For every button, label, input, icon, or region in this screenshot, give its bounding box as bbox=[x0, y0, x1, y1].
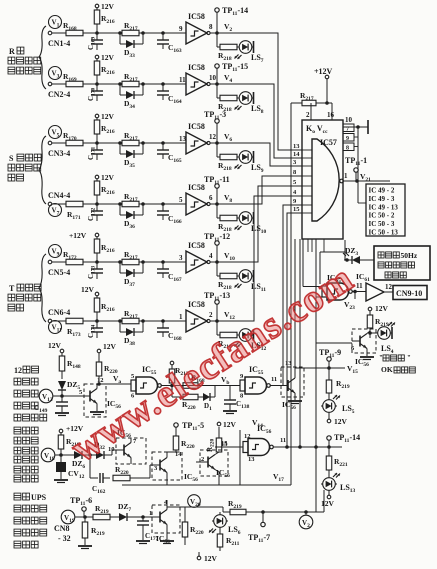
box: inverter 50Hz reference sine generator bbox=[374, 246, 430, 280]
transistor IC56 (inhibit) bbox=[149, 499, 180, 545]
svg-text:3: 3 bbox=[179, 254, 183, 262]
channel row 4: input V7 / CN4-4 bbox=[48, 191, 70, 217]
svg-text:12V: 12V bbox=[101, 112, 115, 121]
wire bbox=[83, 261, 122, 263]
long bottom wire bbox=[122, 484, 291, 486]
wire to output node bbox=[210, 142, 217, 144]
bus wire row5 to IC57 pin5 bbox=[217, 186, 302, 262]
svg-text:CN5-4: CN5-4 bbox=[48, 268, 70, 277]
resistor R212 bbox=[169, 361, 189, 383]
LED LS12 bbox=[235, 329, 267, 352]
diode D36 bbox=[120, 204, 143, 230]
svg-text:IC 50 - 2: IC 50 - 2 bbox=[369, 212, 395, 220]
resistor R171 bbox=[66, 201, 83, 221]
capacitor C167 bbox=[157, 262, 182, 283]
label: R-phase transistor base drive board bbox=[8, 47, 41, 74]
resistor R216 bbox=[94, 239, 115, 262]
12V supply rail bbox=[95, 173, 114, 182]
wire bbox=[83, 142, 122, 144]
capacitor C138 bbox=[223, 386, 250, 414]
svg-text:T: T bbox=[9, 284, 15, 293]
test point TP11-3 bbox=[204, 110, 226, 143]
label: S-phase transistor base drive board bbox=[8, 154, 41, 181]
IC57 pin2 and pin16 stubs bbox=[306, 103, 335, 120]
resistor R218 bbox=[217, 262, 237, 291]
svg-text:IC58: IC58 bbox=[188, 63, 205, 72]
bus wire to IC57 pin9 bbox=[283, 205, 302, 385]
test point TP11-5 and resistor R220 pullup bbox=[173, 421, 204, 450]
buffer amplifier IC61 triangle bbox=[366, 283, 393, 301]
svg-text:15: 15 bbox=[293, 206, 300, 213]
svg-text:13: 13 bbox=[285, 360, 292, 367]
svg-text:2: 2 bbox=[209, 311, 213, 319]
wire to IC49 list box bbox=[358, 202, 366, 204]
LED LS5 bbox=[321, 395, 355, 419]
label: inverter inhibit control signal from UPS logic board bbox=[14, 493, 47, 548]
svg-text:+12V: +12V bbox=[69, 231, 87, 240]
12V supply (LS4) bbox=[368, 304, 388, 315]
resistor R216 bbox=[94, 298, 115, 321]
svg-text:7: 7 bbox=[346, 127, 349, 133]
svg-text:12V: 12V bbox=[48, 341, 62, 350]
channel row 2: input V3 / CN2-4 bbox=[48, 67, 70, 100]
resistor R219 (to V2) bbox=[223, 499, 324, 515]
op-amp IC58 row 1 bbox=[179, 12, 213, 44]
gate IC56 (output) bbox=[215, 424, 286, 463]
bus wire row6 to IC57 pin4 bbox=[217, 196, 302, 321]
svg-text:IC 49 - 3: IC 49 - 3 bbox=[369, 195, 395, 203]
svg-text:15: 15 bbox=[221, 441, 228, 448]
resistor R216 bbox=[94, 181, 115, 204]
LED LS7 bbox=[235, 41, 264, 64]
node Vb wire bbox=[215, 375, 240, 386]
test point TP11-15 bbox=[215, 62, 248, 84]
svg-text:8: 8 bbox=[209, 23, 213, 31]
zener DZ3 bbox=[343, 246, 374, 264]
channel row 1: input V1 / CN1-4 bbox=[48, 16, 70, 49]
diode D34 bbox=[120, 84, 143, 110]
svg-text:IC 50 - 3: IC 50 - 3 bbox=[369, 220, 395, 228]
wire to output node bbox=[210, 203, 217, 205]
svg-text:IC58: IC58 bbox=[188, 183, 205, 192]
resistor R220 (bootstrap supply) bbox=[96, 342, 118, 384]
12V supply rail bbox=[95, 53, 114, 62]
svg-text:12V: 12V bbox=[101, 53, 115, 62]
svg-text:12V: 12V bbox=[223, 420, 237, 429]
test point TP11-13 bbox=[204, 291, 230, 321]
transistor IC56 (LS4 driver) bbox=[352, 329, 376, 368]
svg-text:OK: OK bbox=[381, 365, 393, 374]
svg-text:11: 11 bbox=[280, 437, 286, 444]
svg-text:2: 2 bbox=[306, 111, 310, 119]
resistor R217 (IC57 supply) bbox=[291, 91, 332, 106]
capacitor C163 bbox=[157, 33, 182, 54]
transistor IC56 (test stage 2) bbox=[152, 450, 198, 485]
diode D38 bbox=[120, 321, 143, 347]
resistor R220 (pullup to 12V) bbox=[206, 427, 228, 452]
bus wire to IC57 pin15 bbox=[287, 213, 302, 447]
resistor R219 (shunt) bbox=[78, 517, 105, 549]
test point TP11-14 bbox=[215, 6, 248, 33]
test point TP11-14 (lower) bbox=[327, 433, 360, 449]
resistor R172 bbox=[63, 250, 83, 265]
resistor R219 (LS4) bbox=[367, 315, 389, 338]
wire bbox=[83, 203, 122, 205]
bus vertical wire bbox=[319, 252, 321, 284]
bus vertical wire bbox=[315, 239, 317, 512]
brace for CN3/CN4 bbox=[39, 136, 46, 204]
bus vertical wire bbox=[290, 103, 292, 485]
node V2 (net label) bbox=[299, 510, 313, 529]
label: 12V DC auxiliary voltage bootstrap delayed start control bbox=[14, 366, 47, 421]
svg-text:8: 8 bbox=[346, 146, 349, 152]
svg-text:": " bbox=[407, 354, 411, 362]
svg-text:IC58: IC58 bbox=[188, 241, 205, 250]
gate IC55 (second) bbox=[240, 365, 277, 400]
diode DZ6 bbox=[72, 451, 96, 470]
channel row 5: input V9 / CN5-4 bbox=[48, 245, 70, 278]
resistor R217 bbox=[118, 131, 186, 146]
svg-text:12V: 12V bbox=[101, 2, 115, 11]
bus wire row1 to IC57 pin13 bbox=[217, 33, 302, 150]
test point TP11-6 bbox=[70, 496, 92, 517]
bus vertical wire bbox=[299, 239, 301, 447]
svg-text:+12V: +12V bbox=[314, 67, 333, 76]
resistor R211 bbox=[217, 534, 239, 551]
svg-text:CN2-4: CN2-4 bbox=[48, 90, 70, 99]
brace for CN5/CN6 bbox=[39, 254, 46, 322]
svg-text:11: 11 bbox=[271, 376, 277, 383]
LED LS4 bbox=[370, 322, 395, 355]
svg-text:50Hz: 50Hz bbox=[401, 251, 418, 260]
svg-text:CN6-4: CN6-4 bbox=[48, 308, 70, 317]
resistor R218 bbox=[217, 33, 237, 62]
resistor R217 bbox=[118, 309, 186, 324]
svg-text:1: 1 bbox=[179, 313, 183, 321]
wire bbox=[83, 32, 122, 34]
op-amp IC58 row 5 bbox=[179, 241, 213, 273]
capacitor C173 bbox=[87, 262, 103, 279]
svg-text:16: 16 bbox=[327, 111, 335, 119]
svg-text:12: 12 bbox=[209, 133, 217, 141]
op-amp IC58 row 4 bbox=[179, 183, 213, 215]
svg-text:12V: 12V bbox=[81, 285, 95, 294]
resistor R148 bbox=[59, 356, 81, 379]
resistor R168b bbox=[183, 373, 205, 388]
diode D32 bbox=[94, 440, 115, 459]
resistor R217 bbox=[118, 192, 186, 207]
12V supply rail bbox=[95, 2, 114, 11]
brace for CN1/CN2 bbox=[39, 26, 46, 89]
svg-text:5: 5 bbox=[179, 196, 183, 204]
resistor R170 bbox=[63, 131, 83, 146]
svg-text:12: 12 bbox=[385, 283, 393, 291]
wire to LS4 base bbox=[316, 342, 352, 344]
transistor IC56 (driver) bbox=[281, 360, 304, 411]
12V below LS6 bbox=[220, 525, 241, 551]
IC57 bottom pin stubs bbox=[307, 239, 309, 252]
connector node V19 / CN8-32 bbox=[54, 510, 93, 543]
svg-text:12V: 12V bbox=[101, 173, 115, 182]
capacitor CV12 electrolytic bbox=[54, 455, 85, 483]
resistor R169 bbox=[63, 72, 83, 87]
IC57 left pin numbers bbox=[293, 143, 312, 213]
test point TP11-9 bbox=[319, 345, 355, 368]
svg-text:1: 1 bbox=[344, 172, 348, 180]
bus wire row4 to IC57 pin8 bbox=[217, 176, 302, 204]
resistor R220 (series) bbox=[113, 465, 160, 481]
wire bbox=[83, 320, 122, 322]
bus wire row2 to IC57 pin14 bbox=[217, 84, 302, 158]
svg-text:9: 9 bbox=[179, 25, 183, 33]
transistor IC56 (bootstrap) bbox=[79, 377, 121, 417]
svg-text:": " bbox=[379, 354, 383, 362]
bus vertical wire bbox=[302, 239, 304, 282]
test point TP11-11 bbox=[204, 175, 230, 204]
wire to output node bbox=[210, 83, 217, 85]
LED LS6 branch bbox=[209, 512, 228, 534]
gate output wire to LED column bbox=[274, 446, 343, 448]
IC57 pin10 output bbox=[343, 116, 368, 134]
resistor R218 bbox=[217, 143, 237, 172]
LED LS11 bbox=[235, 270, 267, 293]
wire to driver transistor bbox=[271, 385, 283, 387]
capacitor C170 bbox=[87, 84, 103, 101]
LED LS10 bbox=[235, 212, 267, 235]
svg-text:12V: 12V bbox=[334, 417, 348, 426]
12V supply rail bbox=[95, 112, 114, 121]
IC57 gate shape bbox=[312, 139, 339, 221]
capacitor C174 bbox=[87, 321, 103, 338]
svg-text:9: 9 bbox=[346, 136, 349, 142]
12V supply bbox=[48, 341, 64, 356]
svg-text:CN3-4: CN3-4 bbox=[48, 149, 70, 158]
node V18 bbox=[41, 448, 74, 462]
svg-text:14: 14 bbox=[293, 151, 300, 158]
svg-text:- 32: - 32 bbox=[58, 534, 71, 543]
node Va wire bbox=[97, 374, 131, 386]
test point TP11-7 bbox=[248, 512, 270, 544]
wire to output node bbox=[210, 261, 217, 263]
svg-text:12V: 12V bbox=[103, 342, 117, 351]
label: T-phase transistor base drive board bbox=[8, 284, 41, 311]
12V supply rail bbox=[69, 231, 99, 240]
svg-text:13: 13 bbox=[248, 456, 255, 463]
svg-text:S: S bbox=[9, 154, 14, 163]
resistor R220 and diode D1 branch bbox=[172, 386, 215, 412]
resistor R216 bbox=[94, 10, 115, 33]
capacitor C166 bbox=[157, 204, 182, 225]
svg-text:R: R bbox=[9, 47, 15, 56]
diode D37 bbox=[120, 262, 143, 288]
svg-text:IC58: IC58 bbox=[188, 12, 205, 21]
resistor R219 (LS5) bbox=[326, 368, 350, 400]
op-amp IC58 row 2 bbox=[179, 63, 217, 95]
capacitor C149 bbox=[34, 396, 69, 416]
svg-text:UPS: UPS bbox=[31, 493, 47, 502]
transistor IC56 (test stage 1) bbox=[112, 428, 146, 464]
12V below LS5 bbox=[327, 417, 347, 426]
svg-text:CN8: CN8 bbox=[54, 524, 70, 533]
resistor R218 bbox=[217, 84, 237, 113]
svg-text:13: 13 bbox=[179, 135, 187, 143]
resistor R217 bbox=[118, 250, 186, 265]
gate IC55 (first) bbox=[131, 365, 161, 400]
label: inverter OK indicator bbox=[379, 354, 415, 374]
capacitor C162 bbox=[90, 455, 110, 495]
svg-text:11: 11 bbox=[179, 76, 186, 84]
node V13 bbox=[39, 389, 84, 403]
12V label bbox=[217, 420, 236, 429]
diode D33 bbox=[120, 33, 143, 59]
resistor R219 bbox=[58, 435, 80, 455]
IC65 output node bbox=[353, 282, 367, 293]
svg-text:IC 50 - 13: IC 50 - 13 bbox=[369, 229, 399, 237]
svg-text:IC58: IC58 bbox=[188, 122, 205, 131]
capacitor C164 bbox=[157, 84, 182, 105]
test point TP11-12 bbox=[204, 232, 230, 262]
svg-text:CN4-4: CN4-4 bbox=[48, 191, 70, 200]
capacitor C168 bbox=[157, 321, 182, 342]
gate output wire bbox=[162, 385, 216, 387]
resistor R217 bbox=[118, 21, 186, 36]
IC57 right pin boxes 7 9 8 bbox=[343, 124, 358, 203]
capacitor C165 bbox=[157, 143, 182, 164]
LED LS9 bbox=[235, 151, 264, 174]
capacitor C177 bbox=[136, 517, 159, 544]
svg-text:13: 13 bbox=[293, 143, 300, 150]
resistor R217 bbox=[118, 72, 186, 87]
zener DZ5 bbox=[58, 379, 80, 396]
resistor R216 bbox=[94, 61, 115, 84]
resistor R168 bbox=[63, 21, 83, 36]
wire to output node bbox=[210, 32, 217, 34]
resistor R173 bbox=[66, 318, 83, 338]
svg-text:6: 6 bbox=[209, 194, 213, 202]
svg-text:10: 10 bbox=[209, 74, 217, 82]
+12V supply for IC57 bbox=[314, 67, 333, 103]
node V17 box wires bbox=[240, 430, 291, 485]
svg-text:14: 14 bbox=[175, 451, 182, 458]
svg-text:IC 49 - 2: IC 49 - 2 bbox=[369, 187, 395, 195]
resistor R219 (series) bbox=[93, 504, 119, 520]
svg-text:IC58: IC58 bbox=[188, 300, 205, 309]
wire up from bottom net bbox=[323, 490, 325, 512]
+12V supply bbox=[59, 424, 84, 435]
wire bbox=[83, 83, 122, 85]
IC65 input wires bbox=[302, 282, 304, 287]
LED LS13 bbox=[321, 473, 356, 495]
channel row 3: input V5 / CN3-4 bbox=[48, 126, 70, 159]
diode DZ7 bbox=[118, 502, 152, 521]
svg-text:12: 12 bbox=[14, 366, 22, 375]
resistor R216 bbox=[94, 120, 115, 143]
svg-text:CN9-10: CN9-10 bbox=[396, 289, 422, 298]
label: inverter logic board connector contact reliability test bbox=[14, 427, 38, 482]
resistor R221 bbox=[326, 447, 348, 478]
svg-text:IC 49 - 13: IC 49 - 13 bbox=[369, 203, 399, 211]
IC57 output pin1 node V21 bbox=[343, 172, 390, 183]
resistor R220 (collector load) bbox=[167, 500, 223, 545]
resistor R218 bbox=[217, 204, 237, 233]
diode D35 bbox=[120, 143, 143, 169]
node V15 wire bbox=[295, 364, 358, 375]
svg-text:1: 1 bbox=[149, 510, 152, 517]
capacitor C169 bbox=[87, 33, 103, 50]
channel row 6: input V11 / CN6-4 bbox=[48, 308, 70, 334]
wire to output node bbox=[210, 320, 217, 322]
svg-text:12V: 12V bbox=[204, 554, 218, 563]
svg-text:12V: 12V bbox=[375, 304, 389, 313]
IC57 body bbox=[302, 120, 343, 239]
LED LS8 bbox=[235, 92, 264, 115]
transistor IC56 (test stage 3) bbox=[196, 450, 230, 485]
bus wire row3 to IC57 pin3 bbox=[217, 143, 302, 166]
capacitor C171 bbox=[87, 143, 103, 160]
gate IC65 bbox=[303, 273, 352, 300]
capacitor C172 bbox=[87, 204, 103, 221]
op-amp IC58 row 6 bbox=[179, 300, 213, 332]
resistor R218 bbox=[217, 321, 237, 350]
op-amp IC58 row 3 bbox=[179, 122, 217, 154]
test point TP11-1 bbox=[345, 156, 367, 181]
12V supply rail bbox=[81, 285, 99, 298]
svg-text:4: 4 bbox=[209, 252, 213, 260]
svg-text:10: 10 bbox=[345, 116, 353, 124]
12V at emitter area bbox=[197, 552, 217, 563]
node V20 bbox=[188, 495, 201, 508]
12V below LS13 bbox=[321, 495, 335, 508]
svg-text:12V: 12V bbox=[321, 499, 335, 508]
bus vertical wire bbox=[294, 239, 296, 367]
svg-text:CN1-4: CN1-4 bbox=[48, 39, 70, 48]
IC49/IC50 destination list bbox=[366, 184, 405, 237]
connector CN9-10 bbox=[393, 286, 427, 300]
